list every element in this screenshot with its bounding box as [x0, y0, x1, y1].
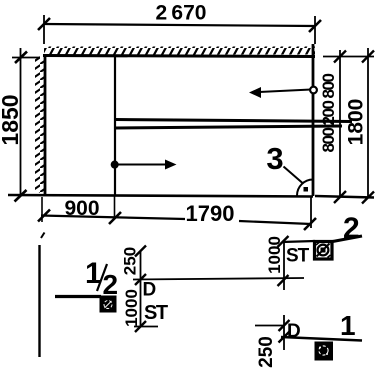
left reference vertical line: [38, 245, 40, 357]
svg-text:1850: 1850: [0, 94, 23, 145]
chain C bottom tick: [279, 332, 290, 343]
callout 2 socket square: [315, 242, 333, 260]
callout 1/2 socket square: [100, 296, 117, 313]
left-pointing arrow: [249, 87, 311, 98]
callout 2 connector line: [282, 241, 315, 242]
chain A bottom line: [134, 326, 158, 328]
left wall line: [44, 54, 47, 194]
right dim top connector: [323, 56, 374, 58]
callout 1 socket square: [315, 342, 334, 361]
left wall dim extension: [41, 197, 43, 222]
right-pointing arrow: [115, 160, 177, 170]
chain C ref line: [255, 325, 283, 327]
left wall hatch: [35, 56, 44, 193]
callout 1/2 text: [85, 257, 118, 300]
callout 1 device line: [281, 337, 362, 341]
right dim bottom connector: [315, 196, 374, 198]
dimension 2670 line: [38, 15, 321, 44]
callout 1/2 device line: [55, 295, 101, 298]
shelf double line lower: [115, 126, 342, 128]
svg-text:250: 250: [121, 247, 140, 275]
node circle on right wall: [310, 87, 317, 94]
right wall line: [312, 44, 315, 196]
svg-text:1000: 1000: [265, 236, 284, 274]
svg-text:800: 800: [319, 74, 338, 99]
chain A mid tick: [135, 274, 146, 285]
chain B vertical line: [283, 242, 285, 290]
chain C vertical line: [283, 315, 285, 350]
node circle on divider: [111, 161, 118, 168]
interior divider wall: [114, 55, 116, 196]
right dim line 2: [367, 48, 369, 197]
svg-text:1800: 1800: [345, 99, 368, 146]
svg-text:2 670: 2 670: [156, 2, 207, 25]
svg-text:250: 250: [256, 336, 277, 368]
chain B top tick: [278, 236, 289, 247]
right dim line 1: [339, 50, 341, 197]
bottom dimension line 1790 segment: [239, 221, 311, 224]
right dim ticks: [334, 51, 374, 204]
svg-text:900: 900: [64, 197, 99, 220]
bottom dimension line 900 segment: [41, 216, 185, 220]
stray tick: [41, 233, 45, 239]
svg-text:3: 3: [266, 141, 283, 176]
divider extension down: [114, 196, 116, 219]
room bottom wall line: [8, 195, 313, 197]
chain C top tick: [279, 320, 290, 331]
callout 2 underline: [330, 236, 362, 242]
chain A vertical line: [140, 251, 142, 327]
chain A bottom tick: [135, 321, 146, 332]
top wall hatch: [44, 47, 315, 55]
bottom dimension ticks: [38, 210, 316, 231]
top wall line: [43, 56, 315, 57]
svg-text:200: 200: [319, 101, 338, 126]
svg-text:1: 1: [340, 310, 356, 341]
svg-text:1000: 1000: [122, 289, 141, 327]
svg-text:ST: ST: [144, 302, 168, 324]
callout 3 corner arc: [297, 180, 313, 196]
right wall extension down: [310, 196, 312, 228]
svg-text:D: D: [143, 280, 157, 301]
svg-text:1790: 1790: [186, 201, 235, 226]
svg-text:2: 2: [103, 269, 119, 300]
svg-text:800: 800: [319, 128, 338, 153]
chain A top tick: [135, 246, 146, 257]
chain B bottom tick: [278, 275, 289, 286]
floor reference line: [133, 278, 304, 280]
dimension 1850 line: [12, 48, 39, 202]
callout 3 leader: [284, 167, 303, 184]
svg-text:ST: ST: [286, 246, 310, 267]
corner lamp square: [304, 187, 309, 192]
shelf double line upper: [115, 120, 352, 122]
